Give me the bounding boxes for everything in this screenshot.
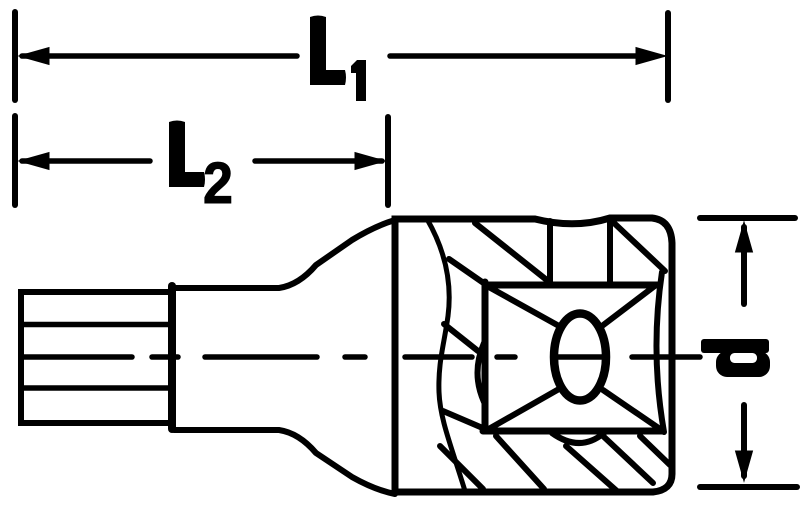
chamfer diagonal bottom-left <box>487 389 559 430</box>
cross hole ellipse <box>554 314 606 401</box>
cross hole wall left <box>547 221 553 283</box>
label L2 <box>169 121 233 216</box>
square left wall lens arc <box>478 343 485 402</box>
label L1 <box>310 16 366 102</box>
hex bit tip outline <box>21 292 171 423</box>
dimension d extension line top <box>700 215 795 221</box>
chamfer diagonal top-left <box>487 286 559 326</box>
chamfer diagonal top-right <box>602 285 656 326</box>
square drive bottom edge <box>483 428 663 435</box>
neck bottom edge and flare <box>174 430 395 494</box>
dimension d line upper segment <box>741 227 747 304</box>
dimension L1 arrowhead right <box>636 48 666 65</box>
neck top edge and flare <box>174 220 395 288</box>
dimension L2 arrowhead right <box>355 153 385 170</box>
hatch line E <box>440 446 483 489</box>
dimension L1 extension line right <box>665 13 671 100</box>
dimension L2 extension line left <box>12 116 18 205</box>
dimension d arrowhead down <box>736 451 753 481</box>
square drive right wall arc <box>656 272 664 432</box>
svg-text:2: 2 <box>203 150 233 215</box>
hex bit flat line lower <box>24 385 168 391</box>
dimension L1 line left segment <box>22 53 297 59</box>
chamfer diagonal bottom-right <box>603 390 660 429</box>
square drive left edge <box>482 282 489 431</box>
dimension L2 line right segment <box>255 158 382 164</box>
dimension L2 line left segment <box>22 158 150 164</box>
bit step vertical <box>168 286 176 429</box>
hatch line H1 <box>566 446 618 492</box>
hatch line F <box>443 411 485 429</box>
hatch line H2 <box>603 436 653 483</box>
wavy break line <box>427 219 465 491</box>
socket body outline <box>395 218 672 492</box>
hatch line H3 <box>640 436 670 465</box>
dimension L2 extension line right <box>385 117 391 205</box>
dimension L1 extension line left <box>12 12 18 100</box>
ball detent arc <box>552 433 604 443</box>
centerline <box>23 354 700 360</box>
dimension d arrowhead up <box>736 222 753 252</box>
hatch line B <box>475 223 548 281</box>
dimension L2 arrowhead left <box>19 153 49 170</box>
label d (rotated) <box>701 339 770 377</box>
dimension d extension line bottom <box>700 484 797 490</box>
hatch line F2 <box>444 324 478 351</box>
dimension L1 arrowhead left <box>19 48 49 65</box>
hatch line C <box>449 259 485 284</box>
dimension L1 line right segment <box>390 53 645 59</box>
square drive top edge <box>486 282 658 289</box>
hatch line D <box>614 223 665 271</box>
hex bit flat line upper <box>24 322 168 328</box>
hatch line G <box>496 436 544 489</box>
dimension d line lower segment <box>741 405 747 476</box>
cross hole wall right <box>607 220 613 283</box>
